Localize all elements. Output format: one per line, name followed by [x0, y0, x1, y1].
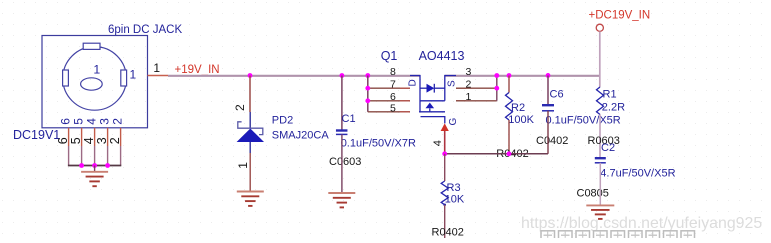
pin 4 arrow: [441, 123, 449, 131]
svg-text:8: 8: [390, 66, 396, 78]
svg-text:S: S: [447, 80, 458, 87]
wire Q1 out to +DC19V_IN: [445, 75, 600, 77]
transistor Q1 symbol: [410, 76, 456, 124]
svg-text:R2: R2: [511, 102, 525, 114]
svg-text:1: 1: [236, 162, 250, 169]
wire pin2 row: [456, 87, 497, 89]
svg-text:https://blog.csdn.net/yufeiyan: https://blog.csdn.net/yufeiyang925: [521, 215, 762, 232]
wire gnd stem: [94, 166, 96, 172]
svg-text:100K: 100K: [508, 114, 534, 126]
resistor R3 end dot: [443, 204, 446, 207]
svg-text:4.7uF/50V/X5R: 4.7uF/50V/X5R: [600, 167, 675, 179]
svg-text:C0805: C0805: [577, 188, 609, 200]
svg-text:6: 6: [58, 118, 72, 125]
junction PD2: [248, 73, 253, 78]
wire PD2 top: [249, 76, 251, 113]
wire R3 bottom: [444, 205, 446, 238]
capacitor C2: [595, 158, 606, 163]
wire PD2 bottom: [249, 153, 251, 192]
junction pin6: [365, 98, 370, 103]
wire C1 bottom: [341, 134, 343, 193]
svg-text:PD2: PD2: [272, 115, 293, 127]
resistor R2: [506, 93, 513, 121]
wire pin5 row: [368, 111, 410, 113]
wire pin6 row: [368, 100, 410, 102]
svg-text:+DC19V_IN: +DC19V_IN: [589, 10, 651, 22]
diode PD2 TVS: [237, 112, 264, 153]
svg-text:SMAJ20CA: SMAJ20CA: [272, 129, 330, 141]
svg-text:R1: R1: [603, 89, 617, 101]
wire S tie vertical: [496, 76, 498, 101]
svg-text:3: 3: [97, 118, 111, 125]
svg-text:4: 4: [84, 118, 98, 125]
junction Q1 bus: [365, 73, 370, 78]
connector DC19V1 body: [42, 36, 148, 128]
junction dots jack: [79, 163, 110, 168]
svg-text:10K: 10K: [445, 194, 465, 206]
junction pin7: [365, 86, 370, 91]
resistor R1: [597, 87, 604, 115]
junction R2 top: [507, 73, 512, 78]
svg-text:C0402: C0402: [536, 135, 568, 147]
ground C1: [328, 193, 355, 207]
svg-text:+19V_IN: +19V_IN: [175, 64, 220, 76]
svg-text:0.1uF/50V/X5R: 0.1uF/50V/X5R: [546, 115, 621, 127]
svg-text:1: 1: [153, 61, 160, 75]
svg-text:R3: R3: [447, 182, 461, 194]
svg-text:1: 1: [130, 67, 137, 81]
svg-text:D: D: [408, 79, 419, 86]
svg-text:C1: C1: [342, 113, 356, 125]
wire pin1 row: [456, 100, 497, 102]
wire +19V_IN main: [168, 75, 420, 77]
wire Q1 bus vertical: [367, 76, 369, 112]
pin numbers 3 2 1: [466, 66, 472, 103]
svg-text:G: G: [448, 118, 459, 126]
wire C2 bottom: [599, 163, 601, 206]
capacitor C1: [336, 131, 348, 135]
wire C6 top: [547, 76, 549, 105]
svg-text:0.1uF/50V/X7R: 0.1uF/50V/X7R: [341, 137, 416, 149]
wires jack pins down: [69, 128, 121, 166]
wire R3 top: [444, 154, 446, 181]
svg-text:6pin DC JACK: 6pin DC JACK: [108, 24, 182, 36]
wire C6 bottom: [547, 111, 549, 154]
junction R2 bottom: [507, 151, 512, 156]
svg-text:2: 2: [233, 104, 247, 111]
connector inner drawing: [63, 43, 127, 110]
svg-text:1: 1: [93, 63, 100, 77]
ground PD2: [237, 192, 264, 206]
svg-text:2: 2: [110, 118, 124, 125]
svg-text:6: 6: [390, 91, 396, 103]
junction C6: [546, 73, 551, 78]
ground C2: [586, 205, 614, 219]
junction C1: [340, 73, 345, 78]
svg-text:Q1: Q1: [381, 49, 398, 63]
svg-text:5: 5: [71, 118, 85, 125]
wire C1 top: [341, 76, 343, 131]
wire gate net: [445, 153, 548, 155]
ground jack: [81, 172, 108, 186]
connector pin numbers 6..2: [56, 137, 122, 144]
svg-text:C2: C2: [601, 142, 615, 154]
junction pin2: [494, 86, 499, 91]
wire power down: [599, 31, 601, 87]
svg-text:R0402: R0402: [432, 227, 464, 239]
resistor R3: [441, 181, 448, 205]
wire R1 bottom: [599, 115, 601, 158]
svg-text:2.2R: 2.2R: [602, 102, 625, 114]
connector pin name labels: [58, 67, 136, 124]
svg-text:C6: C6: [550, 89, 564, 101]
svg-text:C0603: C0603: [329, 156, 361, 168]
pin 1 stub: [148, 75, 169, 77]
svg-text:5: 5: [390, 103, 396, 115]
power port circle: [596, 24, 603, 31]
junction S top: [494, 73, 499, 78]
wire R2 top: [508, 76, 510, 93]
wire R2 bottom: [508, 120, 510, 154]
svg-text:AO4413: AO4413: [419, 49, 465, 63]
svg-text:4: 4: [432, 140, 444, 146]
junction gate: [442, 151, 447, 156]
wire gate down: [444, 131, 446, 154]
capacitor C6: [542, 105, 554, 111]
wire jack gnd bar: [68, 165, 121, 167]
pin stub tints: [400, 88, 466, 112]
svg-text:7: 7: [390, 78, 396, 90]
svg-text:DC19V1: DC19V1: [13, 128, 60, 142]
svg-text:3: 3: [466, 66, 472, 78]
pin numbers 8 7 6 5: [390, 66, 396, 115]
wire pin7 row: [368, 87, 410, 89]
